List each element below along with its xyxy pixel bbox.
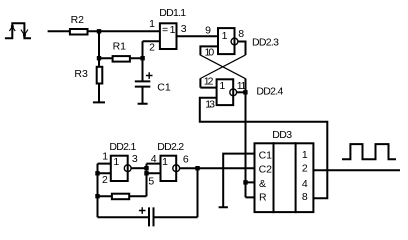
svg-text:8: 8 [238, 28, 244, 40]
svg-text:=1: =1 [162, 24, 177, 36]
svg-text:5: 5 [148, 175, 154, 187]
svg-text:9: 9 [205, 25, 211, 37]
svg-text:C1: C1 [259, 150, 273, 162]
svg-text:C1: C1 [157, 81, 171, 93]
svg-text:1: 1 [113, 156, 119, 168]
svg-text:1: 1 [302, 149, 308, 161]
svg-text:DD2.1: DD2.1 [109, 141, 136, 153]
svg-text:DD2.4: DD2.4 [256, 85, 283, 97]
svg-text:12: 12 [204, 75, 214, 87]
svg-text:&: & [259, 178, 266, 190]
svg-text:13: 13 [205, 98, 215, 110]
svg-text:DD2.2: DD2.2 [157, 141, 184, 153]
svg-text:1: 1 [149, 18, 155, 30]
svg-text:2: 2 [102, 174, 108, 186]
svg-text:3: 3 [132, 153, 138, 165]
svg-text:R3: R3 [74, 68, 88, 80]
svg-text:3: 3 [181, 23, 187, 35]
svg-text:DD2.3: DD2.3 [252, 37, 279, 49]
svg-text:8: 8 [302, 191, 308, 203]
svg-text:DD3: DD3 [272, 129, 292, 141]
svg-text:10: 10 [205, 47, 215, 59]
svg-text:C2: C2 [259, 163, 273, 175]
svg-text:1: 1 [162, 156, 168, 168]
svg-text:DD1.1: DD1.1 [159, 7, 186, 19]
svg-text:1: 1 [219, 80, 225, 92]
svg-text:11: 11 [237, 80, 247, 92]
svg-text:R: R [259, 192, 267, 204]
svg-text:2: 2 [149, 42, 155, 54]
svg-text:4: 4 [151, 153, 157, 165]
svg-text:1: 1 [222, 30, 228, 42]
svg-text:6: 6 [183, 153, 189, 165]
svg-text:1: 1 [102, 150, 108, 162]
svg-text:4: 4 [302, 178, 308, 190]
svg-text:R1: R1 [113, 41, 127, 53]
svg-text:R2: R2 [71, 14, 85, 26]
svg-text:2: 2 [302, 163, 308, 175]
